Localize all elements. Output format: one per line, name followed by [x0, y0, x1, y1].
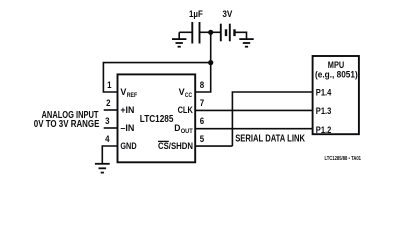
svg-text:D: D	[174, 123, 180, 133]
svg-text:CS/SHDN: CS/SHDN	[158, 141, 193, 151]
svg-text:1µF: 1µF	[189, 9, 203, 20]
svg-text:LTC1285: LTC1285	[140, 114, 174, 125]
wire CLK pin 7 to MPU P1.3	[195, 109, 312, 111]
svg-text:P1.2: P1.2	[316, 124, 332, 135]
svg-text:1: 1	[107, 80, 112, 91]
wire capacitor to supply node	[200, 31, 211, 33]
svg-text:GND: GND	[120, 141, 136, 151]
svg-text:V: V	[120, 87, 126, 97]
wire DOUT pin 6 to MPU P1.2	[195, 128, 312, 130]
svg-text:5: 5	[200, 134, 205, 145]
svg-text:LTC1285/88 • TA01: LTC1285/88 • TA01	[325, 156, 362, 162]
capacitor C1 1uF plates	[192, 22, 199, 44]
wire left ground stem	[178, 32, 180, 38]
svg-text:CLK: CLK	[178, 105, 194, 115]
ground symbol at pin 4	[95, 164, 110, 173]
svg-text:4: 4	[105, 134, 110, 145]
svg-text:REF: REF	[127, 92, 138, 99]
wire pin 4 to ground	[102, 146, 117, 163]
svg-text:SERIAL DATA LINK: SERIAL DATA LINK	[235, 133, 305, 144]
wire battery to right ground	[235, 32, 247, 38]
svg-text:7: 7	[200, 98, 204, 109]
wire supply node to battery	[211, 31, 221, 33]
svg-text:P1.3: P1.3	[316, 105, 332, 116]
svg-text:CC: CC	[185, 92, 192, 99]
IC U1 LTC1285 body	[118, 74, 196, 162]
wire left ground to capacitor	[179, 31, 192, 33]
wire pin 2 stub	[104, 109, 118, 111]
svg-text:+IN: +IN	[120, 105, 134, 115]
wire supply node down to VCC rail	[210, 32, 212, 62]
ground symbol right of battery	[239, 39, 253, 47]
MPU box	[313, 56, 359, 134]
svg-text:2: 2	[106, 98, 110, 109]
svg-text:6: 6	[200, 116, 204, 127]
svg-text:3V: 3V	[222, 9, 232, 20]
wire CS riser to MPU P1.4	[232, 92, 312, 146]
svg-text:–IN: –IN	[120, 123, 134, 133]
svg-text:V: V	[179, 87, 185, 97]
svg-text:3: 3	[105, 116, 109, 127]
node supply junction dot	[208, 30, 213, 35]
ground symbol left of capacitor	[172, 39, 186, 47]
node rail junction dot	[208, 60, 213, 65]
svg-text:OUT: OUT	[181, 128, 193, 135]
svg-text:MPU: MPU	[328, 60, 345, 70]
svg-text:P1.4: P1.4	[316, 86, 332, 97]
svg-text:0V TO 3V RANGE: 0V TO 3V RANGE	[34, 119, 100, 130]
battery B1 3V plates	[221, 24, 235, 42]
svg-text:(e.g., 8051): (e.g., 8051)	[315, 69, 358, 79]
svg-text:8: 8	[200, 80, 205, 91]
overline on CS	[158, 140, 169, 142]
wire rail down to pin 8 VCC	[195, 63, 211, 92]
wire VREF rail to pin 1	[103, 63, 210, 92]
wire pin 3 stub	[104, 127, 118, 129]
wire CS pin 5 stub	[195, 145, 232, 147]
